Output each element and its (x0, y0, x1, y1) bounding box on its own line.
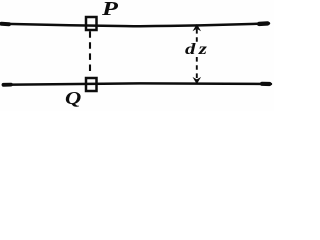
arrowhead up (touches top line) (194, 25, 200, 30)
dashed line joining P and Q (89, 31, 91, 73)
top surface line (1, 23, 269, 26)
label dz (185, 41, 210, 59)
arrowhead down (touches bottom line) (194, 78, 200, 83)
label P (102, 0, 118, 21)
dashed arrow shaft dz (196, 29, 198, 80)
square marker at point P (86, 17, 97, 30)
bottom surface line (3, 83, 271, 84)
label Q (65, 88, 81, 109)
square marker at point Q (86, 78, 97, 91)
